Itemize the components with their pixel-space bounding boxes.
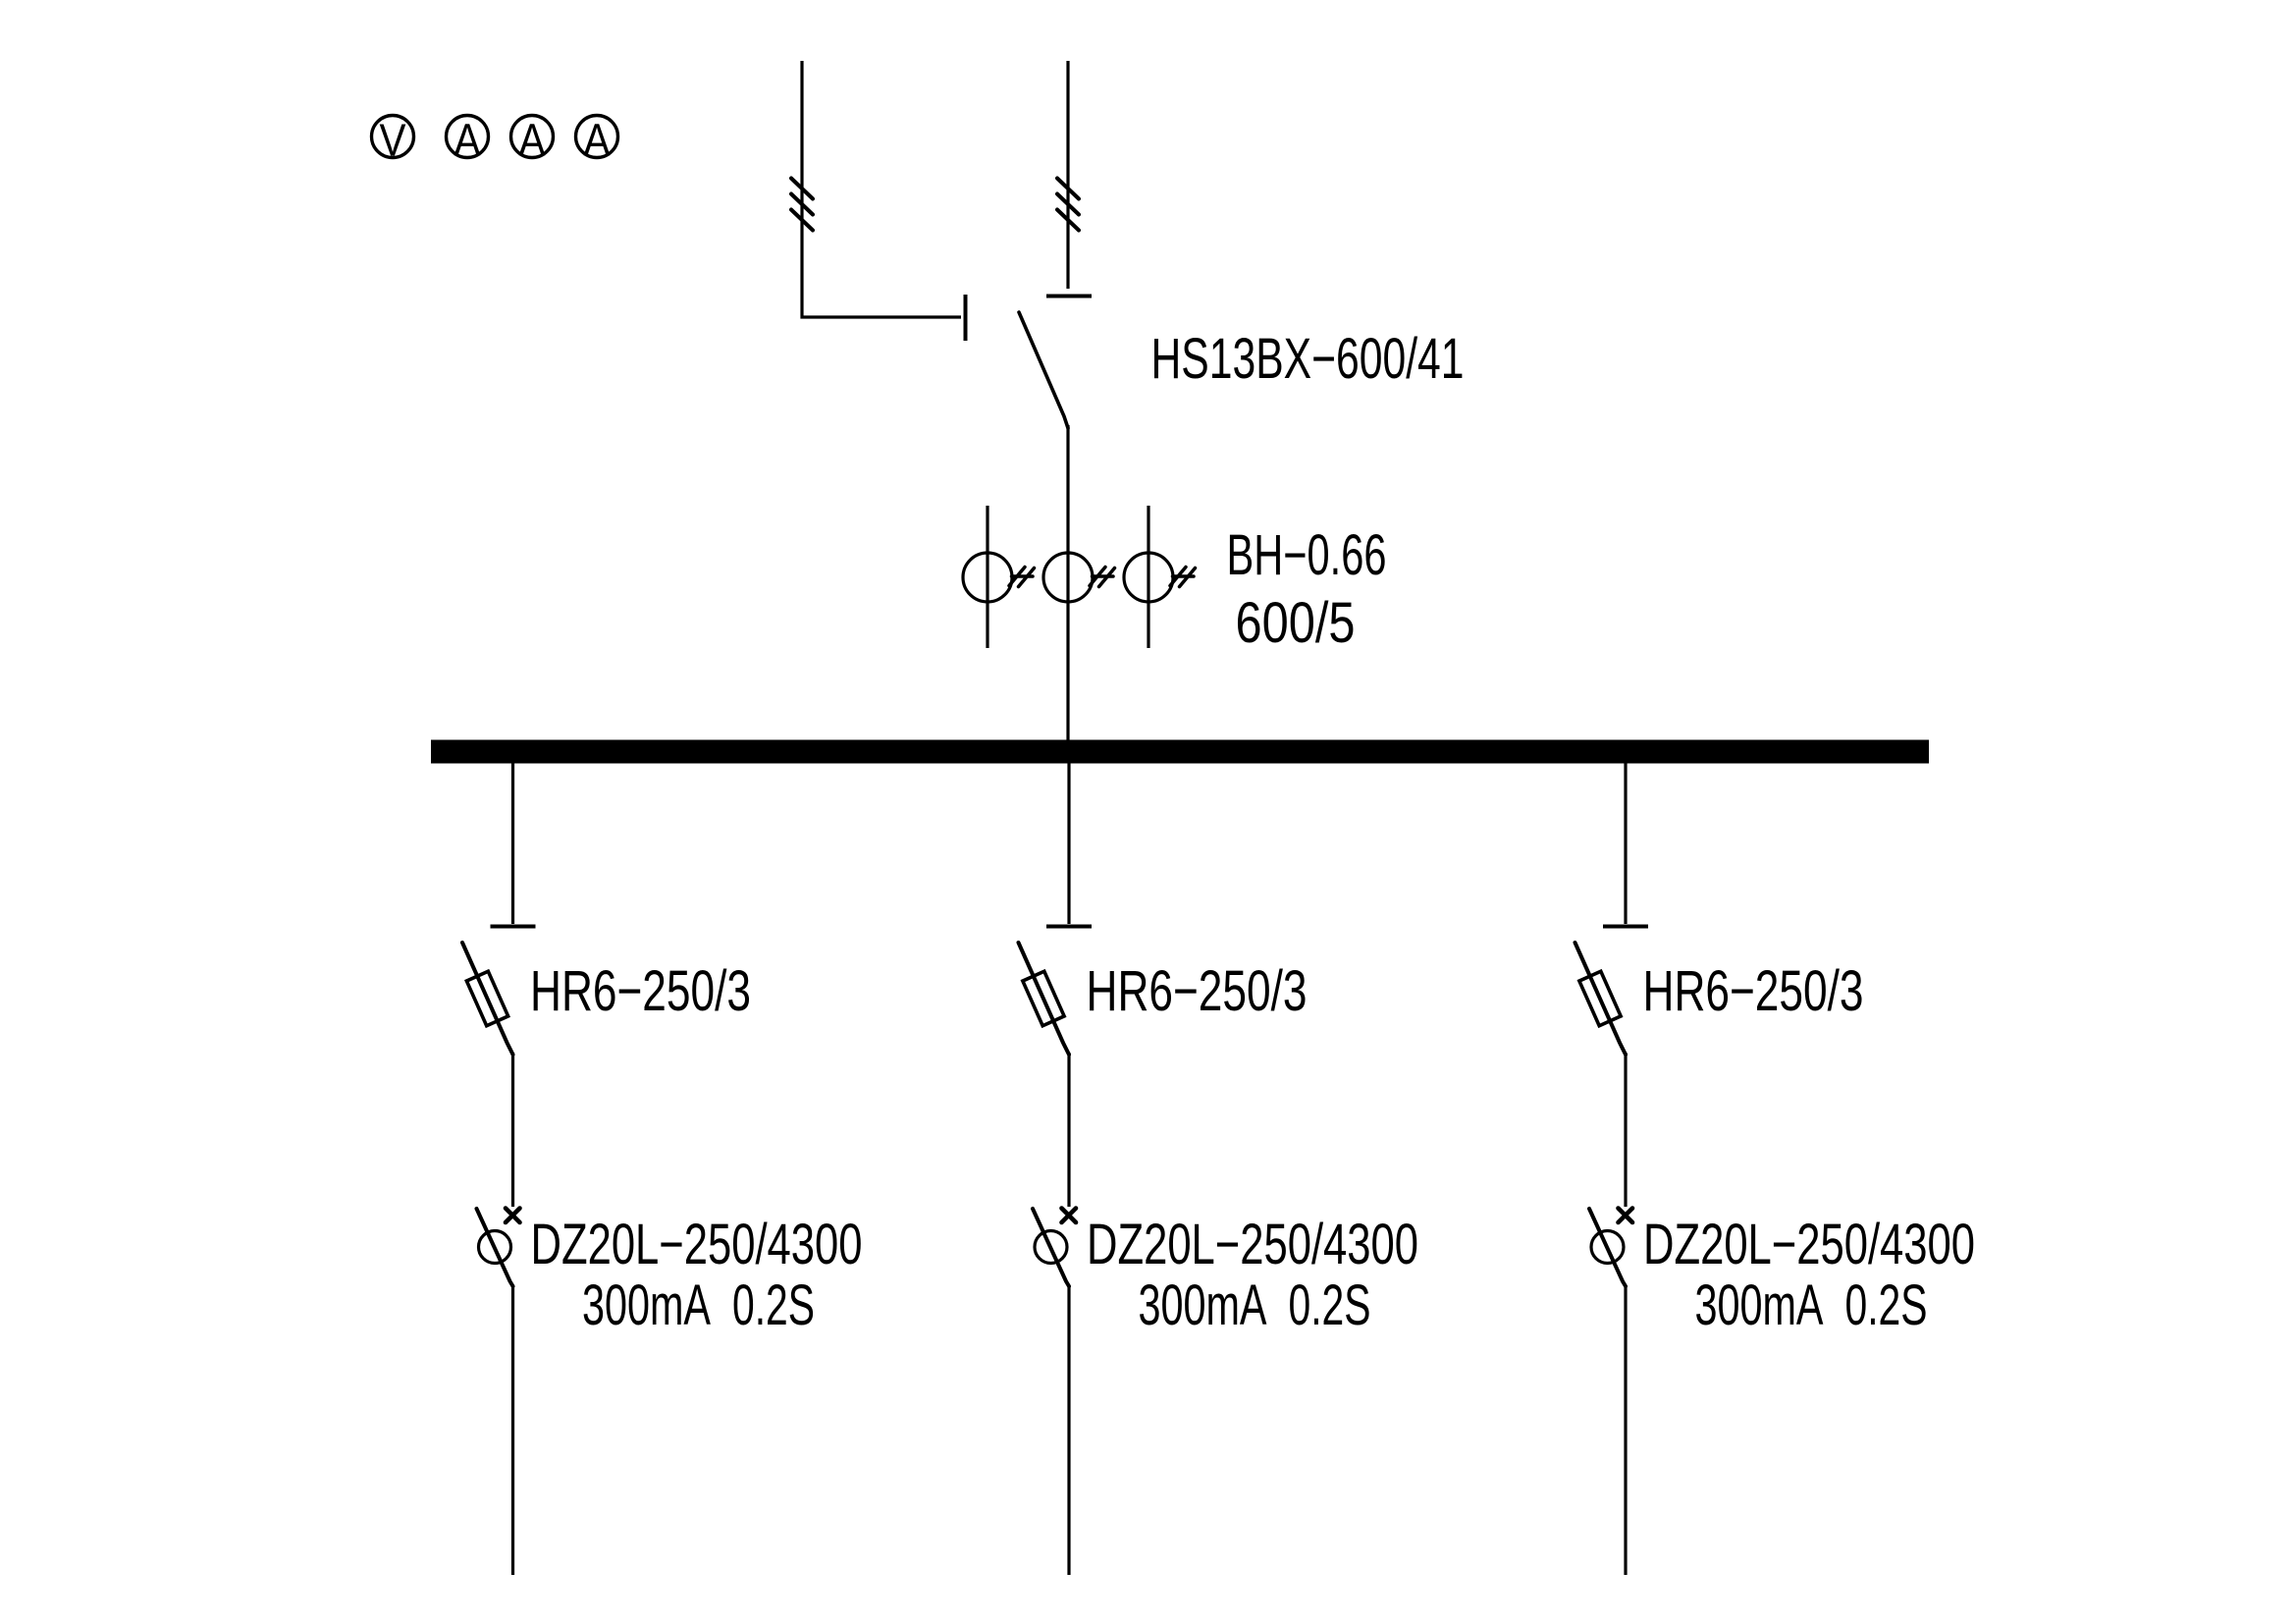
feeder branch 3 xyxy=(1575,762,1976,1575)
wire: feeder 1 drop from busbar xyxy=(511,762,514,924)
circuit breaker QF1 residual-current circle xyxy=(479,1231,511,1264)
fuse FU2 body rectangle xyxy=(1023,971,1064,1025)
phase marks (3) on right incoming line xyxy=(1057,179,1079,231)
svg-text:A: A xyxy=(584,115,611,166)
svg-text:HR6−250/3: HR6−250/3 xyxy=(1087,959,1308,1023)
circuit breaker QF3 blade xyxy=(1589,1209,1626,1286)
svg-text:A: A xyxy=(519,115,546,166)
wire: feeder 3 outgoing xyxy=(1624,1286,1627,1575)
ammeter P2 (A) xyxy=(447,115,489,166)
svg-text:DZ20L−250/4300: DZ20L−250/4300 xyxy=(531,1213,863,1276)
circuit breaker QF3 fixed contact x-mark xyxy=(1619,1209,1633,1223)
feeder 3 isolating contact T-bar xyxy=(1603,925,1648,929)
disconnect switch QS : open blade xyxy=(1019,312,1068,428)
fuse FU1 body rectangle xyxy=(466,971,507,1025)
wire: feeder 2 drop from busbar xyxy=(1067,762,1070,924)
svg-text:HR6−250/3: HR6−250/3 xyxy=(1643,959,1864,1023)
disconnect switch QS : right fixed contact T-bar xyxy=(1046,295,1092,298)
current transformer TA1 secondary tick marks xyxy=(1009,568,1035,587)
busbar (low-voltage bus) xyxy=(431,740,1929,764)
wire: right incoming line xyxy=(1066,61,1069,289)
current transformer TA2 circle (on main line) xyxy=(1043,553,1093,602)
svg-text:0.2S: 0.2S xyxy=(1845,1273,1928,1337)
circuit breaker QF2 blade xyxy=(1033,1209,1069,1286)
circuit breaker QF2 residual-current circle xyxy=(1035,1231,1067,1264)
svg-text:600/5: 600/5 xyxy=(1236,591,1356,655)
wire: feeder 1 outgoing xyxy=(511,1286,514,1575)
current transformer TA1 (BH-0.66) primary stub xyxy=(986,506,988,648)
fuse-switch FU1 HR6-250/3 blade xyxy=(462,943,513,1055)
svg-text:DZ20L−250/4300: DZ20L−250/4300 xyxy=(1643,1213,1975,1276)
svg-text:0.2S: 0.2S xyxy=(732,1273,815,1337)
circuit breaker QF2 fixed contact x-mark xyxy=(1062,1209,1077,1223)
fuse-switch FU3 HR6-250/3 blade xyxy=(1575,943,1627,1055)
fuse-switch FU2 HR6-250/3 blade xyxy=(1019,943,1070,1055)
svg-text:300mA: 300mA xyxy=(582,1273,711,1337)
ammeter P4 (A) xyxy=(576,115,618,166)
circuit breaker QF3 residual-current circle xyxy=(1591,1231,1624,1264)
ammeter P3 (A) xyxy=(511,115,554,166)
wire: feeder 2 between fuse and breaker xyxy=(1067,1053,1070,1207)
svg-text:V: V xyxy=(380,115,406,166)
wire: feeder 3 drop from busbar xyxy=(1624,762,1627,924)
wire: feeder 2 outgoing xyxy=(1067,1286,1070,1575)
fuse FU3 body rectangle xyxy=(1579,971,1621,1025)
current transformer TA2 secondary tick marks xyxy=(1090,568,1115,587)
svg-text:DZ20L−250/4300: DZ20L−250/4300 xyxy=(1087,1213,1418,1276)
wire: feeder 1 between fuse and breaker xyxy=(511,1053,514,1207)
current transformer TA3 secondary tick marks xyxy=(1170,568,1196,587)
disconnect switch QS HS13BX-600/41 : left fixed contact bar xyxy=(964,295,968,341)
svg-text:HS13BX−600/41: HS13BX−600/41 xyxy=(1151,327,1465,391)
feeder 2 isolating contact T-bar xyxy=(1046,925,1092,929)
current transformer TA3 circle xyxy=(1124,553,1173,602)
feeder 1 isolating contact T-bar xyxy=(491,925,536,929)
current transformer TA3 primary stub xyxy=(1147,506,1149,648)
wire: left incoming line with corner to switch contact xyxy=(802,61,961,317)
circuit breaker QF1 blade xyxy=(477,1209,513,1286)
svg-text:0.2S: 0.2S xyxy=(1289,1273,1371,1337)
svg-text:BH−0.66: BH−0.66 xyxy=(1227,523,1387,587)
current transformer TA1 circle xyxy=(963,553,1012,602)
svg-text:HR6−250/3: HR6−250/3 xyxy=(530,959,751,1023)
phase marks (3) on left incoming line xyxy=(791,179,813,231)
circuit breaker QF1 fixed contact x-mark xyxy=(506,1209,520,1223)
wire: feeder 3 between fuse and breaker xyxy=(1624,1053,1627,1207)
svg-text:300mA: 300mA xyxy=(1695,1273,1824,1337)
voltmeter P1 (V) xyxy=(372,115,414,166)
feeder branch 2 xyxy=(1019,762,1419,1575)
svg-text:A: A xyxy=(454,115,481,166)
wire: main feed from switch to busbar xyxy=(1066,425,1069,741)
feeder branch 1 xyxy=(462,762,863,1575)
svg-text:300mA: 300mA xyxy=(1139,1273,1267,1337)
